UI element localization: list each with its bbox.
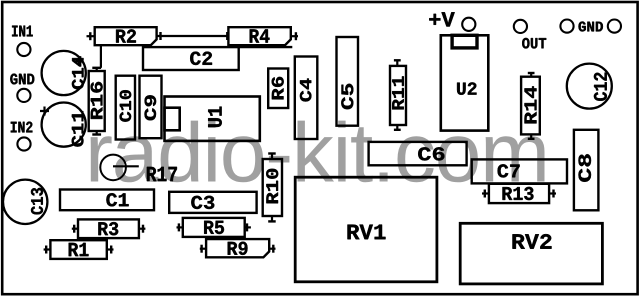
resistor R13 right lead: [549, 192, 556, 194]
label R14 (rotated): [525, 86, 537, 123]
resistor R3 right lead tick: [142, 225, 144, 233]
resistor R14 bottom lead tick: [528, 138, 535, 140]
label C7: [498, 164, 520, 177]
resistor R3 body: [78, 219, 139, 238]
resistor R10 top lead: [271, 154, 273, 160]
label R3: [98, 222, 118, 235]
label C13 (rotated): [31, 188, 43, 215]
resistor R5 right lead tick: [246, 223, 248, 231]
resistor R9 body: [206, 239, 269, 257]
resistor R13 left lead tick: [484, 190, 486, 198]
label C3: [191, 196, 214, 209]
resistor R14 top lead tick: [528, 72, 535, 74]
resistor R3 right lead: [139, 228, 146, 230]
resistor R4 body: [228, 27, 290, 45]
resistor R2 left lead: [87, 35, 95, 37]
capacitor C14 body: [42, 51, 86, 95]
label R17: [147, 167, 177, 181]
capacitor C6 body: [369, 142, 467, 165]
label R10 (rotated): [266, 169, 278, 204]
resistor R11 top lead: [396, 60, 398, 66]
label OUT: [522, 38, 546, 49]
voltage regulator U2 body: [441, 35, 489, 130]
resistor R9 left lead: [200, 248, 206, 250]
label C8 (rotated): [579, 154, 592, 182]
resistor R13 right lead tick: [552, 190, 554, 198]
resistor R11 top lead tick: [394, 59, 401, 61]
capacitor C7 body: [472, 159, 567, 183]
label C6: [418, 147, 444, 160]
op-amp U1 body: [165, 97, 260, 141]
label GND_T: [579, 22, 603, 32]
resistor R6 body: [268, 69, 288, 109]
pad OUT: [514, 20, 527, 33]
capacitor C14 polarity +: [76, 58, 83, 65]
capacitor C11 body: [42, 103, 86, 147]
resistor R14 bottom lead: [530, 134, 532, 138]
capacitor C11 polarity +: [40, 107, 49, 116]
resistor R13 body: [489, 184, 549, 203]
label IN2: [11, 122, 33, 133]
capacitor C12 body: [567, 64, 612, 109]
label R4: [250, 29, 270, 42]
potentiometer RV2 body: [460, 223, 602, 284]
resistor R16 top lead tick: [92, 67, 101, 69]
pad IN2: [17, 137, 30, 150]
resistor R1 right lead: [107, 248, 114, 250]
wire R2 down to R16: [100, 46, 102, 68]
resistor R16 bottom lead tick: [92, 133, 101, 135]
capacitor C5 body: [337, 37, 359, 126]
capacitor C13 body: [3, 180, 47, 224]
resistor R1 body: [50, 240, 106, 259]
op-amp U1 pin-1 notch: [165, 108, 180, 131]
resistor R9 right lead: [269, 248, 275, 250]
label GND_L: [10, 74, 34, 85]
capacitor C2 body: [143, 47, 239, 70]
resistor R11 bottom lead tick: [394, 129, 401, 131]
resistor R10 body: [263, 159, 282, 216]
label C9 (rotated): [145, 95, 157, 120]
watermark radio-kit.com: [91, 121, 545, 183]
label IN1: [12, 26, 33, 37]
label R9: [228, 242, 248, 255]
capacitor C4 body: [295, 57, 318, 140]
resistor R5 left lead: [177, 226, 183, 228]
label C2: [190, 52, 212, 65]
resistor R13 left lead: [482, 192, 489, 194]
capacitor C10 body: [116, 76, 135, 140]
resistor R10 bottom lead tick: [268, 220, 276, 222]
capacitor C3 body: [169, 192, 256, 213]
resistor R14 top lead: [530, 73, 532, 77]
resistor R4 right lead tick: [295, 32, 297, 40]
pad +V: [462, 18, 475, 31]
resistor R16 body: [89, 71, 105, 131]
wire R2 to R4: [157, 35, 229, 37]
label C10 (rotated): [120, 90, 132, 122]
label R2: [116, 29, 136, 42]
label C14 (rotated): [72, 56, 84, 89]
resistor R1 right lead tick: [110, 246, 112, 254]
pad GND left: [17, 89, 30, 102]
label RV2: [513, 234, 552, 249]
resistor R9 left lead tick: [200, 245, 202, 253]
label C11 (rotated): [72, 111, 84, 146]
resistor R14 body: [521, 77, 540, 135]
label R16 (rotated): [91, 82, 103, 119]
resistor R9 right lead tick: [272, 245, 274, 253]
label PLUSV: [429, 12, 454, 26]
wire C2 top edge to R4: [239, 46, 293, 48]
label C5 (rotated): [341, 84, 353, 109]
resistor R3 left lead: [72, 228, 78, 230]
resistor R2 body: [95, 27, 157, 45]
label RV1: [348, 225, 386, 240]
capacitor C9 body: [140, 76, 162, 139]
label C4 (rotated): [300, 79, 312, 102]
resistor R5 left lead tick: [178, 223, 180, 231]
resistor R2 left lead tick: [89, 32, 91, 40]
label U1 (rotated): [208, 107, 222, 127]
resistor R16 top lead: [96, 68, 98, 71]
resistor R16 bottom lead: [96, 131, 98, 135]
resistor R11 body: [390, 66, 406, 125]
label C1: [106, 193, 128, 206]
resistor R5 right lead: [245, 226, 251, 228]
label C12 (rotated): [594, 73, 607, 101]
resistor R4 right lead: [291, 35, 298, 37]
tick R4 left lead: [226, 32, 228, 40]
label U2: [457, 82, 476, 94]
label R11 (rotated): [392, 76, 404, 109]
pad GND top right: [608, 20, 621, 33]
label R1: [69, 243, 89, 256]
resistor R10 bottom lead: [271, 216, 273, 221]
label R5: [204, 221, 224, 234]
label R6 (rotated): [272, 77, 284, 100]
resistor R5 body: [183, 218, 245, 237]
resistor R17 pad circle: [100, 155, 126, 181]
capacitor C1 body: [60, 190, 154, 211]
label R13: [503, 187, 534, 200]
resistor R1 left lead tick: [45, 246, 47, 254]
tick R2 right lead: [159, 32, 161, 40]
capacitor C8 body: [574, 130, 599, 211]
resistor R1 left lead: [44, 248, 51, 250]
pad IN1: [17, 43, 30, 56]
resistor R3 left lead tick: [73, 225, 75, 233]
voltage regulator U2 tab notch: [452, 35, 477, 48]
resistor R10 top lead tick: [268, 152, 276, 154]
resistor R17 wire: [113, 165, 139, 167]
resistor R11 bottom lead: [396, 125, 398, 130]
pad GND top left: [560, 20, 573, 33]
potentiometer RV1 body: [295, 177, 437, 282]
